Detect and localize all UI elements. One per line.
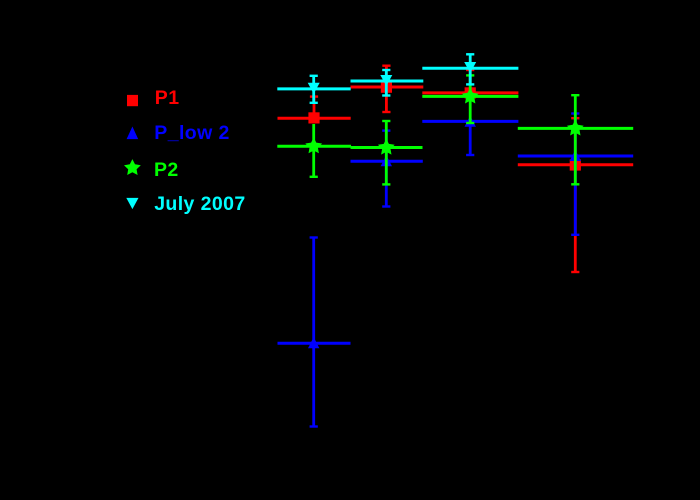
July 2007 data point bin 2 <box>351 70 424 96</box>
P1 data point bin 4 <box>518 118 633 272</box>
P2 data point bin 1 <box>277 124 351 177</box>
svg-text:July 2007: July 2007 <box>154 193 245 215</box>
P_low 2 data point bin 2 <box>351 131 423 207</box>
P_low 2 data point bin 1 <box>278 238 351 427</box>
legend marker July 2007 cyan triangle <box>126 198 138 209</box>
P1 data point bin 2 <box>351 66 424 112</box>
P_low 2 data point bin 3 <box>422 116 518 155</box>
legend marker P2 green star <box>124 159 141 175</box>
P_low 2 data point bin 4 <box>518 114 633 235</box>
P1 data point bin 1 <box>278 97 351 124</box>
svg-text:P1: P1 <box>155 87 180 109</box>
July 2007 data point bin 1 <box>277 76 350 103</box>
P2 data point bin 2 <box>351 121 423 184</box>
legend marker P_low 2 blue triangle <box>127 127 139 140</box>
P1 data point bin 3 <box>422 70 518 99</box>
svg-text:P2: P2 <box>154 159 179 181</box>
July 2007 data point bin 3 <box>422 54 518 84</box>
P2 data point bin 3 <box>422 75 518 123</box>
svg-text:P_low 2: P_low 2 <box>154 122 229 144</box>
P2 data point bin 4 <box>518 95 633 184</box>
legend marker P1 red square <box>127 95 138 106</box>
